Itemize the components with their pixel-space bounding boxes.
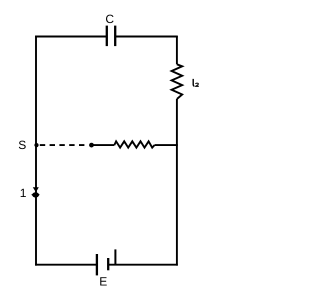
- svg-text:C: C: [105, 12, 114, 26]
- svg-text:1: 1: [20, 186, 27, 200]
- svg-text:S: S: [18, 138, 26, 152]
- svg-text:E: E: [99, 275, 107, 289]
